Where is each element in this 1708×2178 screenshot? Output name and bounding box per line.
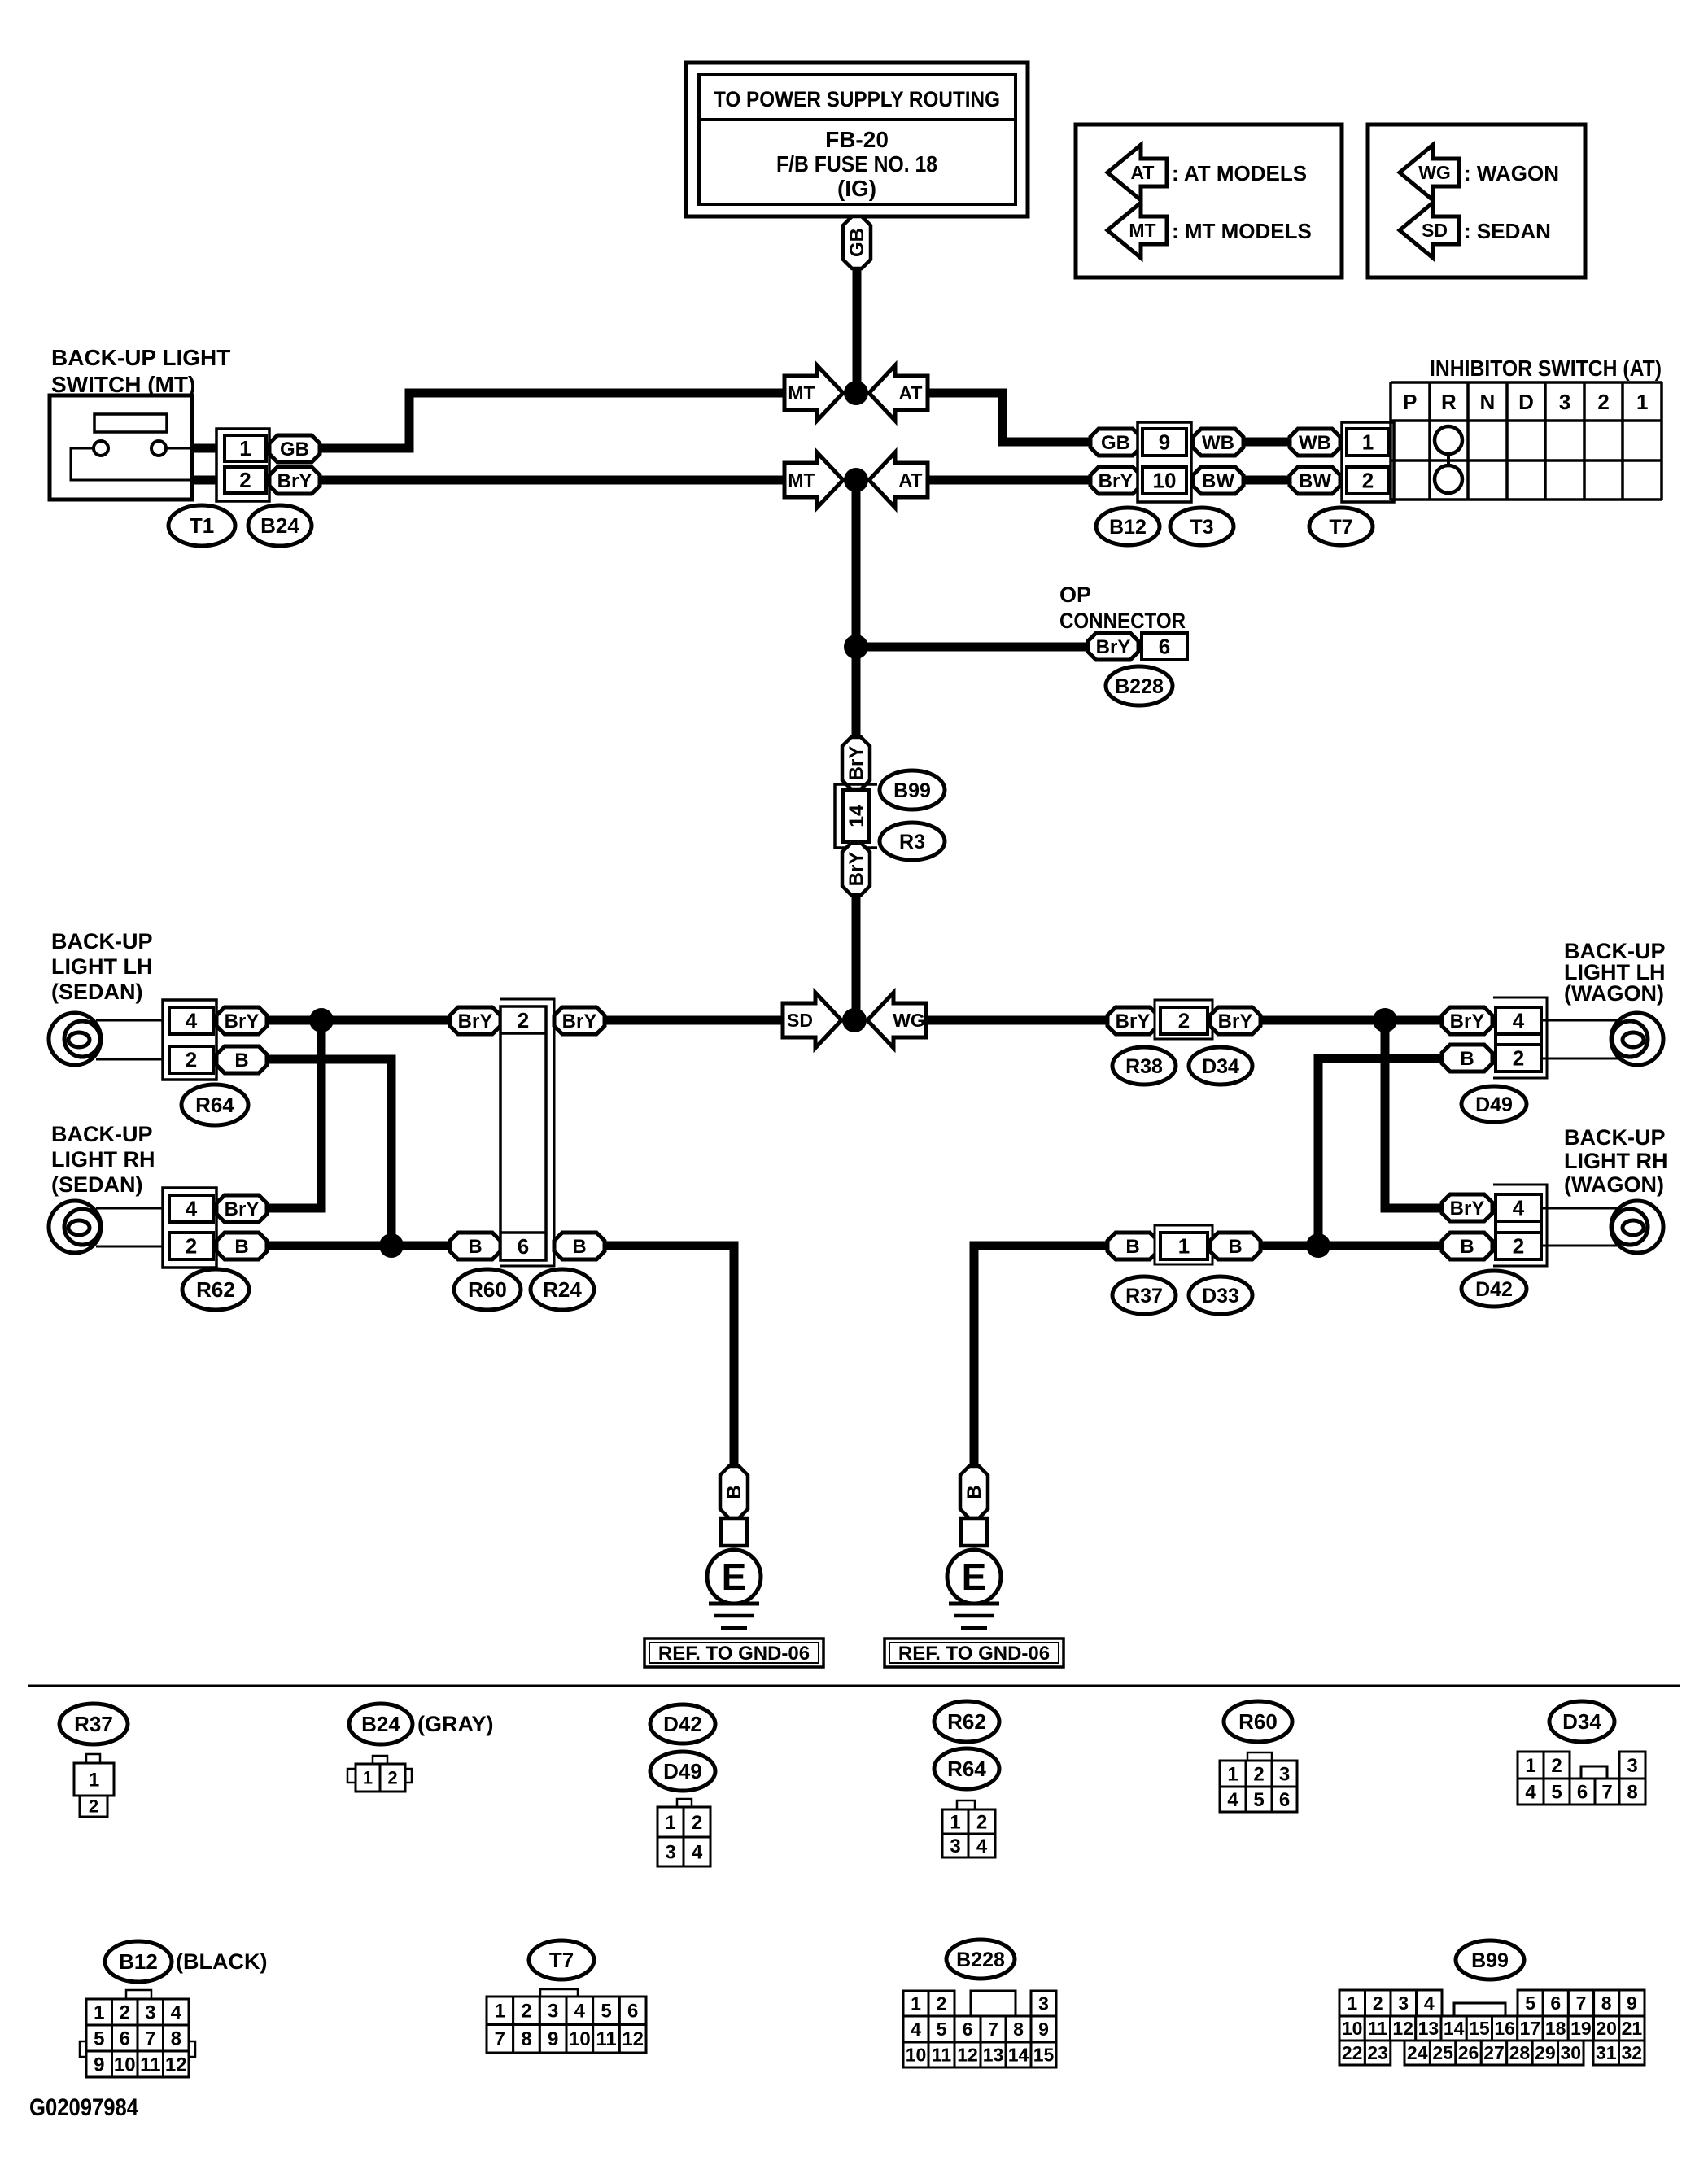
svg-text:WB: WB [1202, 432, 1234, 454]
svg-text:9: 9 [1038, 2019, 1049, 2040]
svg-text:P: P [1403, 390, 1417, 414]
power supply reference box FB-20 [686, 63, 1028, 216]
svg-text:6: 6 [627, 2001, 638, 2023]
svg-text:1: 1 [665, 1812, 675, 1834]
svg-text:REF. TO GND-06: REF. TO GND-06 [898, 1643, 1050, 1665]
svg-text:BW: BW [1299, 470, 1331, 492]
inhibitor switch position grid [1391, 382, 1662, 500]
svg-text:1: 1 [1227, 1763, 1238, 1785]
svg-text:5: 5 [1525, 1992, 1535, 2014]
svg-text:D49: D49 [1475, 1093, 1513, 1116]
svg-text:BrY: BrY [1450, 1010, 1485, 1032]
wire D42 to bulb RH wagon [1541, 1208, 1618, 1246]
connector B99 pin layout [1339, 1990, 1645, 2065]
connector R64 pins 4-2 [163, 1000, 216, 1080]
connector R37 pin layout [74, 1754, 114, 1817]
svg-text:(IG): (IG) [837, 176, 876, 201]
svg-text:BrY: BrY [1450, 1198, 1485, 1220]
svg-text:B12: B12 [119, 1949, 158, 1974]
svg-text:E: E [722, 1556, 747, 1598]
wire label BrY R24 right [554, 1007, 605, 1034]
label back-up light RH sedan [51, 1122, 155, 1197]
wire B LH sedan branch [267, 1059, 391, 1246]
bulb back-up light RH wagon [1611, 1201, 1663, 1253]
wire BrY node D to D34 [926, 1016, 1107, 1025]
connector id R64 (detail) [934, 1748, 999, 1789]
svg-text:R64: R64 [195, 1093, 234, 1117]
svg-text:3: 3 [1559, 390, 1570, 414]
node C junction (OP tap) [844, 635, 868, 659]
node G junction [1373, 1008, 1397, 1032]
connector id R60 [454, 1269, 521, 1310]
svg-text:1: 1 [1362, 430, 1374, 455]
svg-text:22: 22 [1342, 2042, 1363, 2063]
svg-text:LIGHT LH: LIGHT LH [51, 954, 152, 979]
svg-text:CONNECTOR: CONNECTOR [1059, 609, 1186, 633]
svg-text:10: 10 [114, 2054, 136, 2075]
connector id T7 (detail) [529, 1940, 594, 1979]
connector id R60 (detail) [1224, 1701, 1292, 1742]
svg-text:B24: B24 [260, 513, 299, 538]
connector B12/T3 pins 9-10 [1138, 422, 1191, 502]
connector B99/R3 pin 14 [835, 784, 877, 848]
svg-text:SD: SD [787, 1010, 813, 1031]
svg-text:D42: D42 [1475, 1278, 1513, 1301]
svg-text:1: 1 [363, 1768, 373, 1788]
svg-text:OP: OP [1059, 583, 1091, 607]
svg-text:15: 15 [1469, 2018, 1490, 2039]
svg-text:FB-20: FB-20 [825, 127, 889, 152]
wire label GB pin1 [269, 435, 320, 462]
svg-text:4: 4 [1227, 1789, 1238, 1811]
svg-text:4: 4 [574, 2001, 586, 2023]
wire bulb LH to R64 [96, 1020, 169, 1059]
svg-text:2: 2 [1513, 1046, 1524, 1071]
wire label BW pin10 out [1193, 467, 1243, 494]
svg-text:R: R [1441, 390, 1457, 414]
wire BrY trunk to node D [852, 895, 861, 1020]
svg-text:14: 14 [1444, 2018, 1465, 2039]
svg-text:10: 10 [1153, 469, 1177, 493]
connector T1/B24 pins 1-2 [216, 429, 269, 501]
svg-text:AT: AT [1131, 162, 1155, 183]
svg-text:11: 11 [1368, 2018, 1388, 2039]
label back-up light switch (MT) [51, 345, 230, 397]
node H junction [1306, 1233, 1330, 1258]
svg-text:8: 8 [1601, 1992, 1612, 2014]
svg-text:12: 12 [622, 2028, 644, 2050]
wire label GB (fuse output) [843, 216, 871, 268]
wire BrY node B to B12 pin10 [928, 476, 1090, 485]
svg-text:B: B [963, 1485, 985, 1499]
svg-text:30: 30 [1560, 2042, 1581, 2063]
svg-text:(SEDAN): (SEDAN) [51, 1172, 143, 1197]
svg-text:BrY: BrY [458, 1010, 493, 1032]
svg-text:B228: B228 [956, 1949, 1005, 1971]
wire label BrY OP [1088, 633, 1138, 660]
svg-text:2: 2 [89, 1796, 98, 1817]
node D junction [842, 1008, 867, 1032]
svg-text:(GRAY): (GRAY) [417, 1712, 494, 1736]
svg-text:7: 7 [495, 2028, 505, 2050]
svg-text:6: 6 [1159, 635, 1170, 659]
node F junction [379, 1233, 404, 1258]
label back-up light LH sedan [51, 929, 153, 1004]
connector R62 pins 4-2 [163, 1188, 216, 1268]
wire BrY node B down [852, 480, 861, 737]
wire D49 to bulb LH wagon [1541, 1020, 1618, 1058]
connector B24 pin layout [347, 1756, 412, 1792]
svg-text:GB: GB [280, 439, 309, 460]
svg-text:12: 12 [957, 2045, 978, 2066]
svg-text:(WAGON): (WAGON) [1564, 981, 1664, 1006]
label OP CONNECTOR [1059, 583, 1186, 633]
svg-text:WG: WG [1418, 162, 1451, 183]
svg-text:3: 3 [1627, 1755, 1637, 1777]
svg-text:1: 1 [495, 2001, 505, 2023]
svg-text:B99: B99 [893, 779, 931, 802]
svg-text:11: 11 [932, 2045, 952, 2066]
svg-text:BrY: BrY [562, 1010, 597, 1032]
connector id B99 [880, 770, 945, 810]
svg-text:2: 2 [937, 1993, 947, 2014]
arrow MT (node B left) [784, 452, 843, 508]
svg-text:14: 14 [1008, 2045, 1029, 2066]
svg-text:G02097984: G02097984 [29, 2094, 138, 2121]
svg-text:12: 12 [1392, 2018, 1413, 2039]
svg-text:B99: B99 [1471, 1949, 1509, 1972]
svg-text:R38: R38 [1125, 1055, 1163, 1078]
svg-text:SWITCH (MT): SWITCH (MT) [51, 372, 195, 397]
ground E right [947, 1466, 1001, 1628]
connector D49 pins 4-2 [1493, 997, 1547, 1078]
svg-text:BrY: BrY [225, 1198, 260, 1220]
svg-text:BACK-UP: BACK-UP [51, 929, 153, 954]
svg-text:BW: BW [1202, 470, 1234, 492]
inhibitor switch R contacts [1435, 426, 1462, 493]
svg-text:B: B [1125, 1236, 1139, 1258]
connector id B228 [1106, 666, 1173, 705]
svg-text:11: 11 [140, 2054, 160, 2075]
svg-text:27: 27 [1483, 2042, 1505, 2063]
svg-text:SD: SD [1422, 220, 1448, 241]
svg-text:D34: D34 [1202, 1055, 1239, 1078]
svg-text:2: 2 [186, 1234, 197, 1259]
svg-text:(BLACK): (BLACK) [176, 1949, 267, 1974]
svg-text:MT: MT [788, 382, 815, 404]
wire B R60 to ground [605, 1246, 734, 1466]
svg-text:2: 2 [1597, 390, 1609, 414]
connector id R24 [531, 1269, 594, 1310]
svg-text:BrY: BrY [277, 470, 312, 492]
ref box left [644, 1639, 823, 1667]
svg-text:18: 18 [1545, 2018, 1566, 2039]
svg-text:: AT MODELS: : AT MODELS [1172, 161, 1307, 186]
svg-text:R62: R62 [196, 1277, 235, 1302]
svg-text:4: 4 [186, 1009, 198, 1033]
svg-text:B: B [1460, 1236, 1474, 1258]
wire label WB pin9 out [1193, 429, 1243, 456]
svg-text:1: 1 [89, 1769, 99, 1791]
svg-text:INHIBITOR SWITCH (AT): INHIBITOR SWITCH (AT) [1430, 356, 1662, 381]
svg-text:AT: AT [899, 469, 923, 491]
wire label B R60 right [554, 1233, 605, 1259]
svg-text:3: 3 [665, 1841, 675, 1863]
wire label BrY D49 pin4 [1442, 1007, 1492, 1034]
svg-text:B: B [723, 1485, 745, 1499]
wire label B D42 pin2 [1442, 1233, 1492, 1259]
svg-text:: SEDAN: : SEDAN [1464, 219, 1551, 243]
connector id D42 [1461, 1271, 1527, 1307]
svg-text:2: 2 [387, 1768, 397, 1788]
svg-text:2: 2 [521, 2001, 531, 2023]
svg-text:D42: D42 [663, 1712, 702, 1736]
wire label BrY R64 pin4 [216, 1007, 267, 1034]
svg-text:2: 2 [1551, 1755, 1562, 1777]
svg-text:AT: AT [899, 382, 923, 404]
connector id R37 [1112, 1277, 1176, 1314]
connector id D42 (detail) [650, 1704, 715, 1744]
svg-text:4: 4 [911, 2019, 921, 2040]
svg-text:3: 3 [145, 2001, 155, 2023]
connector R24/R60 body pins 2,6 [500, 999, 554, 1266]
connector id R37 (detail) [59, 1704, 128, 1744]
svg-text:R37: R37 [1125, 1285, 1163, 1307]
svg-text:R60: R60 [1238, 1709, 1278, 1734]
svg-text:REF. TO GND-06: REF. TO GND-06 [658, 1643, 810, 1665]
connector id R62 [182, 1269, 249, 1310]
back-up light switch S1 box [50, 395, 221, 500]
svg-text:B: B [468, 1236, 482, 1258]
wire label BrY pin10 [1090, 467, 1141, 494]
label B24 gray [417, 1712, 494, 1736]
wire label B D33 [1210, 1233, 1260, 1259]
svg-text:9: 9 [1627, 1992, 1637, 2014]
svg-text:4: 4 [171, 2001, 182, 2023]
wire label BrY R24 left [450, 1007, 500, 1034]
svg-text:R60: R60 [468, 1277, 507, 1302]
svg-text:B: B [234, 1236, 248, 1258]
svg-text:(SEDAN): (SEDAN) [51, 980, 143, 1004]
ground E left [707, 1466, 761, 1628]
wire label GB pin9 [1090, 429, 1141, 456]
wire label B R37 [1107, 1233, 1158, 1259]
svg-text:4: 4 [1424, 1992, 1435, 2014]
svg-text:LIGHT RH: LIGHT RH [51, 1147, 155, 1172]
svg-text:BrY: BrY [1096, 636, 1131, 658]
svg-text:1: 1 [94, 2001, 104, 2023]
svg-text:D34: D34 [1562, 1709, 1601, 1734]
svg-text:5: 5 [937, 2019, 947, 2040]
wire label B D49 pin2 [1442, 1045, 1492, 1072]
svg-text:1: 1 [1178, 1234, 1190, 1259]
svg-text:BACK-UP: BACK-UP [51, 1122, 153, 1146]
ref box right [885, 1639, 1064, 1667]
connector id R38 [1112, 1047, 1176, 1085]
connector T7 pin layout [487, 1989, 646, 2053]
svg-text:15: 15 [1033, 2045, 1055, 2066]
svg-text:2: 2 [1253, 1763, 1264, 1785]
svg-text:BrY: BrY [1218, 1010, 1253, 1032]
svg-text:2: 2 [1178, 1009, 1190, 1033]
connector id D33 [1189, 1277, 1252, 1314]
svg-text:1: 1 [1525, 1755, 1535, 1777]
svg-text:6: 6 [963, 2019, 973, 2040]
connector id B24 (detail) [349, 1704, 413, 1744]
svg-text:D49: D49 [663, 1759, 702, 1783]
svg-text:13: 13 [1418, 2018, 1439, 2039]
svg-text:7: 7 [1601, 1781, 1612, 1803]
svg-text:1: 1 [1636, 390, 1648, 414]
svg-text:17: 17 [1520, 2018, 1541, 2039]
svg-text:6: 6 [1550, 1992, 1561, 2014]
connector D42/D49 pin layout [657, 1799, 710, 1866]
svg-text:13: 13 [983, 2045, 1004, 2066]
svg-text:6: 6 [1577, 1781, 1588, 1803]
svg-text:4: 4 [692, 1841, 703, 1863]
svg-text:1: 1 [1347, 1992, 1357, 2014]
svg-text:7: 7 [145, 2027, 155, 2049]
wire label BrY below R3 [842, 843, 870, 895]
connector id R62 (detail) [934, 1701, 999, 1742]
wire BrY switch to node B [320, 476, 784, 485]
arrow WG (node D right) [867, 993, 926, 1048]
svg-text:6: 6 [120, 2027, 130, 2049]
arrow MT (node A left) [784, 365, 843, 421]
bulb back-up light LH wagon [1611, 1013, 1663, 1065]
connector B12 pin layout [80, 1990, 195, 2077]
svg-text:WB: WB [1299, 432, 1331, 454]
arrow SD (node D left) [783, 993, 841, 1048]
svg-text:7: 7 [1576, 1992, 1587, 2014]
svg-text:B: B [1228, 1236, 1242, 1258]
connector B228 pin layout [903, 1991, 1056, 2067]
connector R38/D34 pin 2 [1155, 1000, 1212, 1039]
svg-text:4: 4 [1525, 1781, 1536, 1803]
wire BrY node D to R24 [605, 1016, 783, 1025]
connector id B99 (detail) [1456, 1940, 1524, 1979]
wire label B R64 pin2 [216, 1046, 267, 1073]
svg-text:T7: T7 [1329, 516, 1352, 539]
svg-text:N: N [1480, 390, 1496, 414]
svg-text:3: 3 [1038, 1993, 1049, 2014]
legend box WG/SD body styles [1368, 124, 1585, 277]
svg-text:4: 4 [1513, 1009, 1525, 1033]
svg-text:2: 2 [976, 1811, 987, 1833]
connector id D49 (detail) [650, 1752, 715, 1791]
connector id D34 (detail) [1549, 1701, 1614, 1742]
svg-text:7: 7 [988, 2019, 998, 2040]
svg-text:GB: GB [1101, 432, 1130, 454]
connector id B12 (detail) [105, 1941, 172, 1982]
svg-text:1: 1 [239, 436, 251, 460]
svg-text:9: 9 [548, 2028, 558, 2050]
wire WB to T7 [1243, 438, 1290, 447]
wire B D49 branch down [1318, 1058, 1442, 1246]
svg-text:2: 2 [120, 2001, 130, 2023]
svg-text:3: 3 [1398, 1992, 1409, 2014]
connector T7 pins 1-2 [1342, 422, 1394, 502]
wire GB node A to B12 pin9 [928, 393, 1090, 442]
connector id R3 [880, 823, 945, 860]
wire BrY LH sedan to R24 [267, 1016, 450, 1025]
svg-text:WG: WG [893, 1010, 925, 1031]
svg-text:2: 2 [239, 468, 251, 492]
svg-text:3: 3 [950, 1835, 960, 1857]
wire B line to D42 [1260, 1242, 1442, 1250]
wire label B R60 left [450, 1233, 500, 1259]
svg-text:BrY: BrY [845, 852, 867, 887]
svg-text:10: 10 [569, 2028, 591, 2050]
connector R60 pin layout [1220, 1752, 1297, 1812]
svg-text:4: 4 [186, 1197, 198, 1221]
svg-text:3: 3 [548, 2001, 558, 2023]
connector B228 pin 6 [1142, 633, 1187, 660]
connector id R64 [181, 1085, 248, 1125]
svg-text:BrY: BrY [845, 746, 867, 781]
wire GB switch to node A [320, 393, 784, 448]
svg-text:32: 32 [1621, 2042, 1642, 2063]
svg-text:6: 6 [518, 1234, 529, 1259]
svg-text:MT: MT [788, 469, 815, 491]
wire BrY node G down to D42 [1385, 1020, 1442, 1208]
svg-text:21: 21 [1622, 2018, 1643, 2039]
wire label BW pin2 [1290, 467, 1340, 494]
svg-text:TO POWER SUPPLY ROUTING: TO POWER SUPPLY ROUTING [714, 87, 1000, 111]
wire label BrY R38 [1107, 1007, 1158, 1034]
svg-text:12: 12 [165, 2054, 187, 2075]
wire B to ground right [974, 1246, 1107, 1466]
svg-text:D33: D33 [1202, 1285, 1239, 1307]
svg-text:5: 5 [1551, 1781, 1562, 1803]
svg-text:19: 19 [1570, 2018, 1592, 2039]
svg-text:14: 14 [845, 805, 868, 827]
legend box AT/MT models [1076, 124, 1342, 277]
wire GB vertical to node A [853, 267, 862, 393]
svg-text:20: 20 [1596, 2018, 1617, 2039]
wire label WB pin1 [1290, 429, 1340, 456]
wire B RH sedan to R60 [267, 1242, 450, 1250]
svg-text:11: 11 [596, 2028, 616, 2050]
svg-text:: WAGON: : WAGON [1464, 161, 1559, 186]
label B12 black [176, 1949, 267, 1974]
connector R37/D33 pin 1 [1155, 1225, 1212, 1264]
svg-text:8: 8 [171, 2027, 181, 2049]
svg-text:5: 5 [1253, 1789, 1264, 1811]
svg-text:9: 9 [94, 2054, 104, 2075]
connector id T1 [168, 505, 235, 546]
separator line [28, 1685, 1680, 1687]
svg-text:2: 2 [1362, 469, 1374, 493]
svg-text:24: 24 [1407, 2042, 1428, 2063]
connector D34 pin layout [1518, 1752, 1645, 1805]
svg-text:LIGHT RH: LIGHT RH [1564, 1149, 1668, 1173]
connector id D34 [1189, 1047, 1252, 1085]
svg-text:2: 2 [518, 1008, 529, 1032]
svg-text:B12: B12 [1109, 516, 1147, 539]
connector id B12 [1096, 508, 1160, 545]
label back-up light RH wagon [1564, 1125, 1668, 1197]
wire BrY to OP connector [856, 643, 1088, 652]
wire label BrY D42 pin4 [1442, 1194, 1492, 1221]
node A junction [844, 381, 868, 405]
svg-text:5: 5 [601, 2001, 611, 2023]
figure id G02097984 [29, 2094, 138, 2121]
svg-text:GB: GB [846, 228, 868, 257]
svg-text:10: 10 [906, 2045, 927, 2066]
svg-text:2: 2 [692, 1812, 702, 1834]
wire BW to T7 [1243, 476, 1290, 485]
